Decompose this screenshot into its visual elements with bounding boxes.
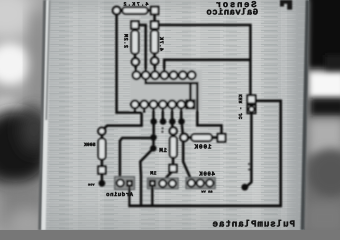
connector J2 pin 2 (square pad): [126, 180, 133, 187]
wire R4 pad to connector J3 pin 2: [163, 172, 171, 181]
svg-text:vcc: vcc: [88, 183, 95, 187]
via dot 5: [150, 134, 157, 141]
op-amp U1 pad 3: [168, 101, 176, 109]
connector J3 (1M) body: [148, 178, 179, 189]
via dot 4: [178, 118, 185, 125]
resistor R6 top pad (donut): [98, 128, 105, 135]
op-amp U1 pad 4: [159, 101, 167, 109]
wire up to IC bottom pad1: [134, 108, 137, 112]
wire via dot 3 down to R4: [171, 124, 174, 127]
wire: [134, 66, 137, 72]
paper left edge dark line: [38, 0, 46, 230]
wire bottom pad2 stub: [143, 108, 146, 112]
paper left edge highlight: [41, 0, 50, 230]
dark blob left: [0, 108, 52, 188]
paper right edge dark line: [301, 0, 310, 230]
wire dot5 down: [152, 141, 155, 146]
svg-text:an vw: an vw: [201, 191, 213, 195]
svg-text:4.7K: 4.7K: [158, 36, 164, 51]
svg-text:Galvanico: Galvanico: [206, 7, 258, 17]
white band: [309, 72, 340, 97]
op-amp U1 pad 14 (top row): [133, 71, 141, 79]
svg-text:1M: 1M: [150, 171, 156, 177]
via dot 1: [150, 118, 157, 125]
wire R5 pad down to connector J4 pin 1: [183, 141, 191, 180]
wire branch down-left to R 500K: [102, 113, 142, 131]
via dot 6: [150, 145, 157, 152]
wire B to C: [153, 14, 156, 21]
wire IC top pad2 routing to 100K square pad: [146, 79, 222, 134]
resistor R1 body: [123, 7, 148, 14]
paper sheet: [41, 0, 309, 230]
wire J2 pin 2 to ground bus: [128, 187, 130, 206]
op-amp U1 pad 2: [177, 101, 185, 109]
svg-text:2.2M: 2.2M: [123, 34, 129, 48]
op-amp U1 pin 1 square marker: [186, 100, 195, 109]
node VCC end dot under R6: [99, 180, 106, 187]
resistor R4 1M vertical body: [170, 136, 177, 157]
dark corner glyph top right: [280, 0, 292, 10]
wire J3 pin 1 to ground bus: [151, 187, 153, 206]
op-amp U1 pad 5: [150, 101, 158, 109]
wire: [148, 9, 151, 12]
resistor R3 4.7K vertical: [153, 29, 156, 31]
svg-text:Arduino: Arduino: [106, 191, 133, 198]
op-amp U1 pad 13: [142, 71, 150, 79]
connector J4 (400K) body: [186, 178, 215, 189]
wire dot1 chain down: [152, 124, 155, 134]
long left wire from pad A down: [117, 14, 142, 112]
wire J1 pad 1 to ground bus (right edge + bottom bus): [128, 101, 280, 206]
paper edge curl second line (top): [45, 0, 50, 120]
node end dot (via): [241, 184, 248, 191]
left background column: [0, 0, 60, 230]
wire J1 pad 2 down to end dot: [247, 113, 251, 186]
wire stubs bottom pads 3-6 down: [152, 108, 155, 118]
connector J2 pin 1 (donut): [117, 179, 124, 186]
via dot 2: [160, 118, 167, 125]
wire via dot 4 down to R5: [181, 125, 184, 134]
resistor R2 lower pad (donut): [132, 58, 139, 65]
resistor R5 left pad (donut): [180, 134, 188, 142]
connector J3 pin 1 (square pad): [149, 180, 156, 187]
right background column: [300, 0, 340, 230]
node B square pad: [151, 7, 159, 15]
svg-text:400K: 400K: [199, 170, 215, 177]
connector J1 KER-JC pads: [247, 95, 255, 103]
op-amp U1 pad 12: [151, 71, 159, 79]
wire IC pad4 up and right to KER column: [164, 60, 250, 72]
connector J3 pins 2 and 3 (donuts): [159, 180, 166, 187]
resistor R3 lower pad (donut): [151, 57, 158, 64]
connector J4 pins 1-3 (donuts): [188, 180, 195, 187]
resistor R5 100K horizontal: [188, 136, 192, 139]
dark under band: [311, 99, 340, 116]
node C square pad: [151, 21, 159, 29]
op-amp U1 pad 7 (bottom row): [131, 101, 139, 109]
light gray mid: [308, 119, 340, 155]
bright bokeh blob: [0, 43, 32, 85]
wire D to IC pad2 top: [139, 25, 146, 71]
ruled line texture: [41, 0, 309, 230]
op-amp U1 pad 8: [188, 71, 196, 79]
svg-text:100K: 100K: [194, 144, 212, 151]
wire dot5 left to block A: [120, 138, 154, 179]
black blob top right: [308, 0, 340, 68]
wire: [120, 9, 122, 12]
resistor R2 2.2M vertical: [134, 29, 137, 31]
svg-text:4.7K.2: 4.7K.2: [122, 2, 148, 8]
node A pad (donut): [113, 7, 121, 15]
svg-text:500K: 500K: [84, 142, 96, 148]
svg-text:KER - JC: KER - JC: [238, 94, 244, 119]
svg-text:1M: 1M: [159, 147, 167, 154]
wire node C to KER column: [158, 25, 250, 95]
op-amp U1 pad 10: [170, 71, 178, 79]
resistor R6 lower square pad: [98, 166, 105, 173]
wire drop into pin1 square: [189, 83, 192, 100]
op-amp U1 pad 6: [140, 101, 148, 109]
resistor R4 upper pad (donut): [170, 127, 177, 134]
wire: [154, 65, 157, 72]
IC body shading: [130, 70, 202, 111]
tiny polarity marks: [248, 163, 250, 165]
op-amp U1 pad 9: [179, 71, 187, 79]
darker blob lower: [307, 149, 340, 197]
resistor R6 500K vertical body: [98, 139, 105, 160]
svg-text:PulsumPlantae: PulsumPlantae: [212, 218, 295, 229]
paper right edge shadow band: [290, 0, 309, 230]
via dot 3: [169, 118, 176, 125]
op-amp U1 pad 1: [187, 101, 195, 109]
resistor R4 lower square pad: [169, 165, 176, 172]
op-amp U1 pad 11: [161, 71, 169, 79]
node D square pad: [131, 21, 139, 29]
connector J2 (Arduino) body: [115, 177, 135, 190]
wire diagonal to bus: [140, 148, 153, 206]
resistor R5 right square pad: [218, 134, 226, 142]
tiny polarity dots: [162, 127, 164, 129]
